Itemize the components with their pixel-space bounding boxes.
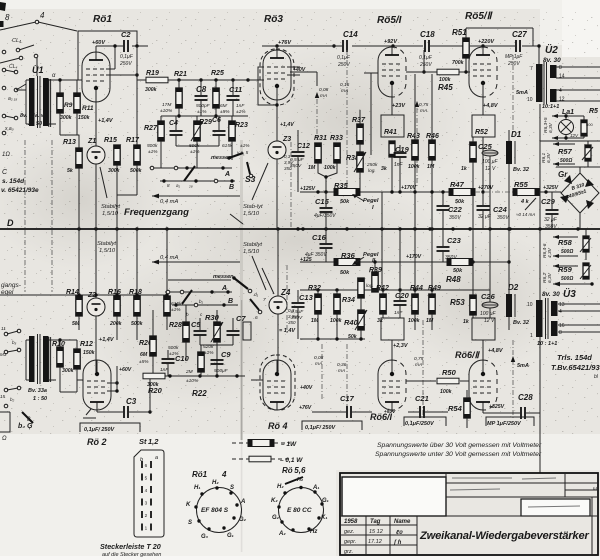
svg-text:H₁: H₁ [194,485,200,491]
svg-text:C9: C9 [221,350,231,359]
paper mottling [0,130,170,270]
svg-text:R58: R58 [558,238,573,247]
switch arm (lower) [182,290,192,304]
svg-text:M3: M3 [0,352,7,357]
svg-text:R48: R48 [446,275,461,284]
resistor R11 [74,93,80,113]
wire node to R11 top [60,79,77,81]
svg-text:500pF: 500pF [196,103,211,109]
svg-text:+125V: +125V [300,186,316,192]
svg-text:α: α [52,73,56,79]
wire R10/R12 bottoms [59,367,61,392]
svg-text:C29: C29 [541,197,556,206]
svg-text:300k: 300k [60,115,73,121]
svg-text:11: 11 [1,326,6,331]
svg-text:C11: C11 [229,85,242,94]
selector line B (lower) [172,304,238,306]
svg-text:T.Bv.65421/93e: T.Bv.65421/93e [551,363,600,372]
svg-text:8: 8 [5,13,10,22]
Roe3 grid leads [248,79,264,81]
resistor R20 [143,373,165,379]
wire transformer to R10 [59,340,61,347]
svg-text:R23: R23 [235,122,248,129]
svg-text:17M: 17M [162,102,171,108]
U3 secondary top [551,301,558,316]
Roe5/II cathode wire [482,97,484,115]
svg-text:+125: +125 [300,257,312,263]
resistor R45 [437,69,459,75]
arrow line to U3 [553,283,592,285]
C28 value bracket [486,417,534,426]
svg-text:6,3V: 6,3V [547,272,553,283]
svg-text:Z1: Z1 [87,138,96,145]
wire R19 coupling line y=80 [137,79,146,81]
capacitor C8 [199,78,202,81]
svg-text:auf die Stecker gesehen: auf die Stecker gesehen [102,552,161,558]
resistor R9 [57,93,63,113]
svg-text:Stabilyt: Stabilyt [97,241,116,247]
svg-text:500: 500 [586,122,593,127]
svg-text:±10%: ±10% [160,108,173,114]
tube Roe1 enclosure box [78,31,137,80]
svg-text:R15: R15 [104,137,117,144]
svg-text:R33: R33 [330,135,343,142]
svg-text:350V: 350V [449,215,461,221]
svg-text:1,5/10: 1,5/10 [102,211,119,217]
svg-text:a: a [155,455,158,461]
junction dots lower rail [77,293,80,296]
svg-text:250V: 250V [337,62,350,68]
svg-text:0,75: 0,75 [414,356,424,362]
switch contact row b [2,68,6,72]
svg-text:100k: 100k [440,389,453,395]
cathode resistor box R52 [472,115,495,137]
left edge scan marks [0,2,6,11]
svg-text:S3: S3 [245,174,256,184]
bridge rectifier [561,173,599,213]
svg-text:±1%: ±1% [171,307,181,313]
svg-text:R12: R12 [80,341,93,348]
wire anode stub Roe1 [95,46,97,53]
svg-text:gangs-: gangs- [1,282,22,289]
svg-text:+270V: +270V [478,185,494,191]
svg-text:Rö 4: Rö 4 [268,421,288,431]
svg-text:12: 12 [559,97,565,103]
wire y=339 [300,338,365,340]
svg-text:500k: 500k [130,168,143,174]
svg-text:Steckerleiste T 20: Steckerleiste T 20 [100,542,161,551]
svg-text:Gr: Gr [558,170,568,179]
svg-text:1M: 1M [427,164,435,170]
svg-text:8v. 30: 8v. 30 [542,291,560,298]
svg-text:b₄ Ģ: b₄ Ģ [18,423,33,430]
svg-text:R32: R32 [308,285,321,292]
resistor R19 [146,77,168,83]
switch contact row a [2,50,6,54]
svg-text:Pegel: Pegel [363,252,379,258]
svg-text:250V: 250V [119,61,132,67]
svg-text:Rö6/Ⅱ: Rö6/Ⅱ [455,350,481,360]
title block outer border [340,473,598,555]
svg-text:13: 13 [559,302,565,308]
svg-text:500k: 500k [168,345,179,351]
svg-text:R37: R37 [352,117,366,124]
title block top right rows [446,482,598,484]
svg-text:1: 1 [530,333,533,339]
cathode box Roe6/I [381,318,404,340]
svg-text:R49: R49 [428,285,441,292]
svg-text:G₂: G₂ [272,515,280,521]
svg-text:R50: R50 [442,368,457,377]
switch d1 arm [250,299,259,310]
svg-text:R20: R20 [148,386,163,395]
pegel rail wire y=192 [300,191,337,193]
tube Roe5/I half triode [378,47,406,97]
svg-text:C24: C24 [493,205,508,214]
svg-text:Bv. 32: Bv. 32 [513,167,529,173]
svg-text:100k: 100k [330,318,343,324]
svg-text:R54: R54 [448,404,463,413]
svg-text:250k: 250k [366,162,378,168]
svg-text:a₂ ₁₅: a₂ ₁₅ [8,96,17,102]
svg-text:H₂: H₂ [212,480,219,486]
title block vertical x=565 [564,473,566,497]
svg-text:R42: R42 [376,285,389,292]
selector line B [160,180,235,182]
svg-text:R47: R47 [450,180,465,189]
svg-text:R13: R13 [63,139,76,146]
svg-text:C13: C13 [299,293,314,302]
svg-text:C12: C12 [297,143,310,150]
tube Roe5/II half triode [469,47,497,97]
resistor R34 [334,294,340,314]
svg-text:50k: 50k [340,199,350,205]
tube Roe4 dashed envelope [260,355,295,410]
svg-text:log.: log. [368,168,376,174]
svg-text:Spannungswerte über 30 Volt: Spannungswerte über 30 Volt gemessen mit… [377,442,542,449]
svg-text:1nF: 1nF [394,310,403,316]
svg-text:8v. 33a. w: 8v. 33a. w [20,113,46,119]
svg-text:6: 6 [145,463,148,468]
switch row e [4,332,8,336]
svg-text:350V: 350V [545,224,557,230]
switch arm on A/B [184,166,195,181]
svg-text:150k: 150k [78,115,91,121]
svg-text:mA: mA [320,93,327,99]
svg-text:500k: 500k [147,143,158,149]
svg-text:b₂: b₂ [10,397,15,402]
svg-text:C14: C14 [343,30,358,39]
switch row f [4,350,8,354]
svg-text:C3: C3 [126,397,137,406]
date column verticals [365,516,367,556]
coupling wire Roe6/I to Roe6/II [406,380,436,382]
svg-text:a₁: a₁ [176,183,181,188]
svg-text:gez.: gez. [344,529,354,535]
svg-text:MP 1μF/250V: MP 1μF/250V [487,421,522,427]
svg-text:+1,4V: +1,4V [280,122,294,128]
svg-text:R45: R45 [438,83,453,92]
svg-text:C15: C15 [315,197,330,206]
resistor R17 [134,145,140,165]
socket EF804S circle [197,488,242,533]
svg-text:Rö1: Rö1 [93,14,112,25]
svg-text:C22: C22 [448,205,463,214]
svg-text:St 1,2: St 1,2 [139,437,159,446]
svg-text:K₁: K₁ [321,515,327,521]
svg-text:50k: 50k [453,268,463,274]
transformer 2 leads [26,339,29,341]
transformer 2 windings [29,336,35,382]
main supply bus D (y=229) [0,228,600,230]
svg-text:– 0,1 W: – 0,1 W [280,457,303,464]
left chassis dash-dot boundary 1 [24,140,26,292]
electrolytic D1 (Bv.32) [506,141,512,164]
svg-text:1,5/10: 1,5/10 [99,248,116,254]
svg-text:500Ω: 500Ω [561,249,573,255]
svg-text:15: 15 [0,394,6,399]
resistor R12 [74,349,80,369]
bridge output wire [579,213,581,229]
svg-text:b₁: b₁ [199,299,204,304]
long column wires [381,192,383,290]
wire top link [466,27,533,29]
switch S3 arm [247,162,250,174]
switch diagonal 2 [0,58,20,63]
svg-text:3: 3 [145,501,148,506]
svg-text:Pegel: Pegel [363,198,379,204]
svg-text:1M: 1M [426,318,434,324]
svg-text:C18: C18 [420,30,435,39]
svg-text:0,1μF: 0,1μF [120,54,134,60]
svg-text:R52: R52 [475,129,488,136]
resistor R48 (1W) [447,259,473,266]
svg-text:0,1μF/ 250V: 0,1μF/ 250V [305,425,337,431]
svg-text:D1: D1 [511,130,522,139]
U3 core [545,298,547,339]
socket E80CC circle [279,488,324,533]
svg-text:K₂: K₂ [271,498,278,504]
cathode wire down [95,102,97,146]
bridge diodes [585,179,594,187]
svg-text:MP 1μF: MP 1μF [505,54,523,60]
svg-text:D2: D2 [508,283,519,292]
Roe3 anode wire [262,45,342,47]
svg-text:mA: mA [338,368,345,374]
resistor R48 [470,142,476,162]
measure dash line ch I [290,142,292,228]
svg-text:R27: R27 [144,125,158,132]
wire Roe5/I grid feed [364,72,378,74]
svg-text:1: 1 [145,526,148,531]
svg-text:50k: 50k [340,270,350,276]
svg-text:E 80 CC: E 80 CC [287,507,312,514]
transformer U1 core [37,76,39,128]
Roe3 grid return loop [258,67,277,105]
svg-text:Zweikanal-Wiedergabeverstärker: Zweikanal-Wiedergabeverstärker [419,530,589,542]
svg-text:A: A [221,285,227,292]
tube Roe3 dashed envelope [260,49,294,105]
svg-text:8v. 30: 8v. 30 [543,57,561,64]
svg-text:32 μF: 32 μF [478,214,492,220]
switch row g [4,388,8,392]
svg-text:grz.: grz. [344,549,353,555]
svg-text:±10%: ±10% [186,378,199,384]
svg-text:R16: R16 [108,289,121,296]
tube Roe4 inverted triode [263,360,291,410]
svg-text:±1%: ±1% [190,149,200,155]
svg-text:2M: 2M [185,369,193,375]
svg-text:0,08: 0,08 [319,87,329,93]
svg-text:0,1μF: 0,1μF [337,55,351,61]
wire lower-left rail y=294 [0,294,168,296]
svg-text:10 : 1+1: 10 : 1+1 [537,341,557,347]
svg-text:H₂: H₂ [297,477,303,483]
messen arm (lower) [234,278,248,289]
svg-text:1nF: 1nF [160,367,169,373]
dash link R47 to R55 [475,191,514,193]
svg-text:Tag: Tag [370,519,381,525]
selector line A [152,167,232,169]
partial box left [0,412,10,432]
input wire diagonal top-left [0,22,36,30]
svg-text:100k: 100k [324,165,337,171]
5mA measure (lower) [512,340,514,420]
svg-text:0,1μF: 0,1μF [419,55,433,61]
svg-text:100 μF: 100 μF [482,159,498,165]
svg-text:Rö 5,6: Rö 5,6 [282,466,306,475]
svg-text:1 : 50: 1 : 50 [33,396,47,402]
tube Roe6/I inverted half triode [378,360,406,410]
selector line A (lower) [165,291,232,293]
socket E80CC pins [299,486,302,489]
svg-text:+60V: +60V [92,40,106,46]
svg-text:CL₄: CL₄ [12,38,21,44]
svg-text:= 1,4V: = 1,4V [279,328,296,334]
svg-text:C28: C28 [518,393,533,402]
svg-text:+40V: +40V [300,385,313,391]
svg-text:0,1μF/ 250V: 0,1μF/ 250V [84,427,116,433]
svg-text:messen: messen [213,274,234,280]
svg-text:±1%: ±1% [197,109,207,115]
svg-text:C20: C20 [395,291,410,300]
rail wire y=376 [143,375,245,377]
U3 primary winding [536,300,543,337]
svg-text:gepr.: gepr. [344,539,356,545]
svg-text:4: 4 [145,488,148,493]
svg-text:7: 7 [530,66,533,72]
resistor R13 [76,148,82,168]
svg-text:8: 8 [167,183,170,188]
svg-text:1M: 1M [308,165,316,171]
capacitor C11 [231,78,234,81]
svg-text:K: K [186,502,191,508]
svg-text:R17: R17 [126,137,140,144]
svg-text:10: 10 [527,97,533,103]
svg-text:Bv. 33a: Bv. 33a [28,388,47,394]
U2 primary winding [536,64,543,102]
heater wires from U2 [556,66,600,68]
svg-text:s. 154d: s. 154d [2,178,25,185]
Roe6/I anode wire down [391,410,393,412]
svg-text:C10: C10 [175,354,190,363]
svg-text:S: S [230,485,234,491]
svg-text:5mA: 5mA [517,363,529,369]
svg-text:350V: 350V [497,215,509,221]
svg-text:6M: 6M [220,103,227,109]
svg-text:G₁: G₁ [322,498,329,504]
svg-text:350V: 350V [315,252,327,258]
svg-text:+76V: +76V [278,40,292,46]
small pot frame right [243,322,251,340]
U2 core [543,62,545,104]
svg-text:12 V: 12 V [485,166,496,172]
section frame line [540,140,600,142]
svg-text:±5%: ±5% [220,109,230,115]
svg-text:Trls. 154d: Trls. 154d [557,353,592,362]
svg-text:Rö1: Rö1 [192,470,208,479]
svg-text:x,a₃: x,a₃ [4,126,14,132]
transformer U1 secondary winding [43,78,49,126]
Roe5/II anode wire [470,45,515,47]
svg-text:+1,4V: +1,4V [98,118,114,124]
grid stopper junction [246,78,249,81]
tube Roe3 triode [263,50,291,100]
svg-text:10:1+1: 10:1+1 [542,104,559,110]
svg-text:R43: R43 [407,133,420,140]
svg-text:+23V: +23V [392,103,406,109]
svg-text:R14: R14 [66,289,79,296]
svg-text:Ω: Ω [2,436,7,442]
svg-text:B: B [229,184,234,191]
svg-text:0,1μF/250V: 0,1μF/250V [405,421,435,427]
svg-text:15 12: 15 12 [369,529,383,535]
svg-text:mA: mA [315,361,322,367]
svg-text:R21: R21 [174,71,187,78]
wire channel-I measure arrow 0,4mA [152,195,240,197]
svg-text:+325V: +325V [489,404,505,410]
svg-text:+60V: +60V [119,367,132,373]
second row wire y=116 [161,115,248,117]
svg-text:5mA: 5mA [516,90,528,96]
C17 value bracket [302,421,362,430]
wire anode stub Roe3 [276,46,278,51]
leader line Frequenzgang [230,214,243,224]
svg-text:Ü3: Ü3 [563,287,576,300]
resistor R10 [57,347,63,367]
heater arrow c [553,143,575,145]
svg-text:mA: mA [341,88,348,94]
svg-text:ʃ ɦ: ʃ ɦ [393,540,402,546]
svg-text:La1: La1 [562,109,574,116]
svg-text:8: 8 [559,65,562,71]
wire C26/R53 join [472,318,495,340]
svg-text:Name: Name [394,519,411,525]
svg-text:R25: R25 [211,70,224,77]
section frame line 2 [556,166,600,168]
legend 0,1W resistor [232,458,249,460]
svg-text:4μF/350V: 4μF/350V [314,213,336,219]
svg-text:log.: log. [366,283,374,289]
svg-text:350V: 350V [290,163,302,169]
svg-text:0,4 mA: 0,4 mA [160,255,178,261]
svg-text:300k: 300k [145,87,158,93]
svg-text:mA: mA [415,362,422,368]
svg-text:6M: 6M [140,352,148,358]
tube Roe2 inverted triode [83,360,111,410]
Roe5/I cathode wire [391,97,393,115]
wire C4/C6 join [176,145,219,147]
